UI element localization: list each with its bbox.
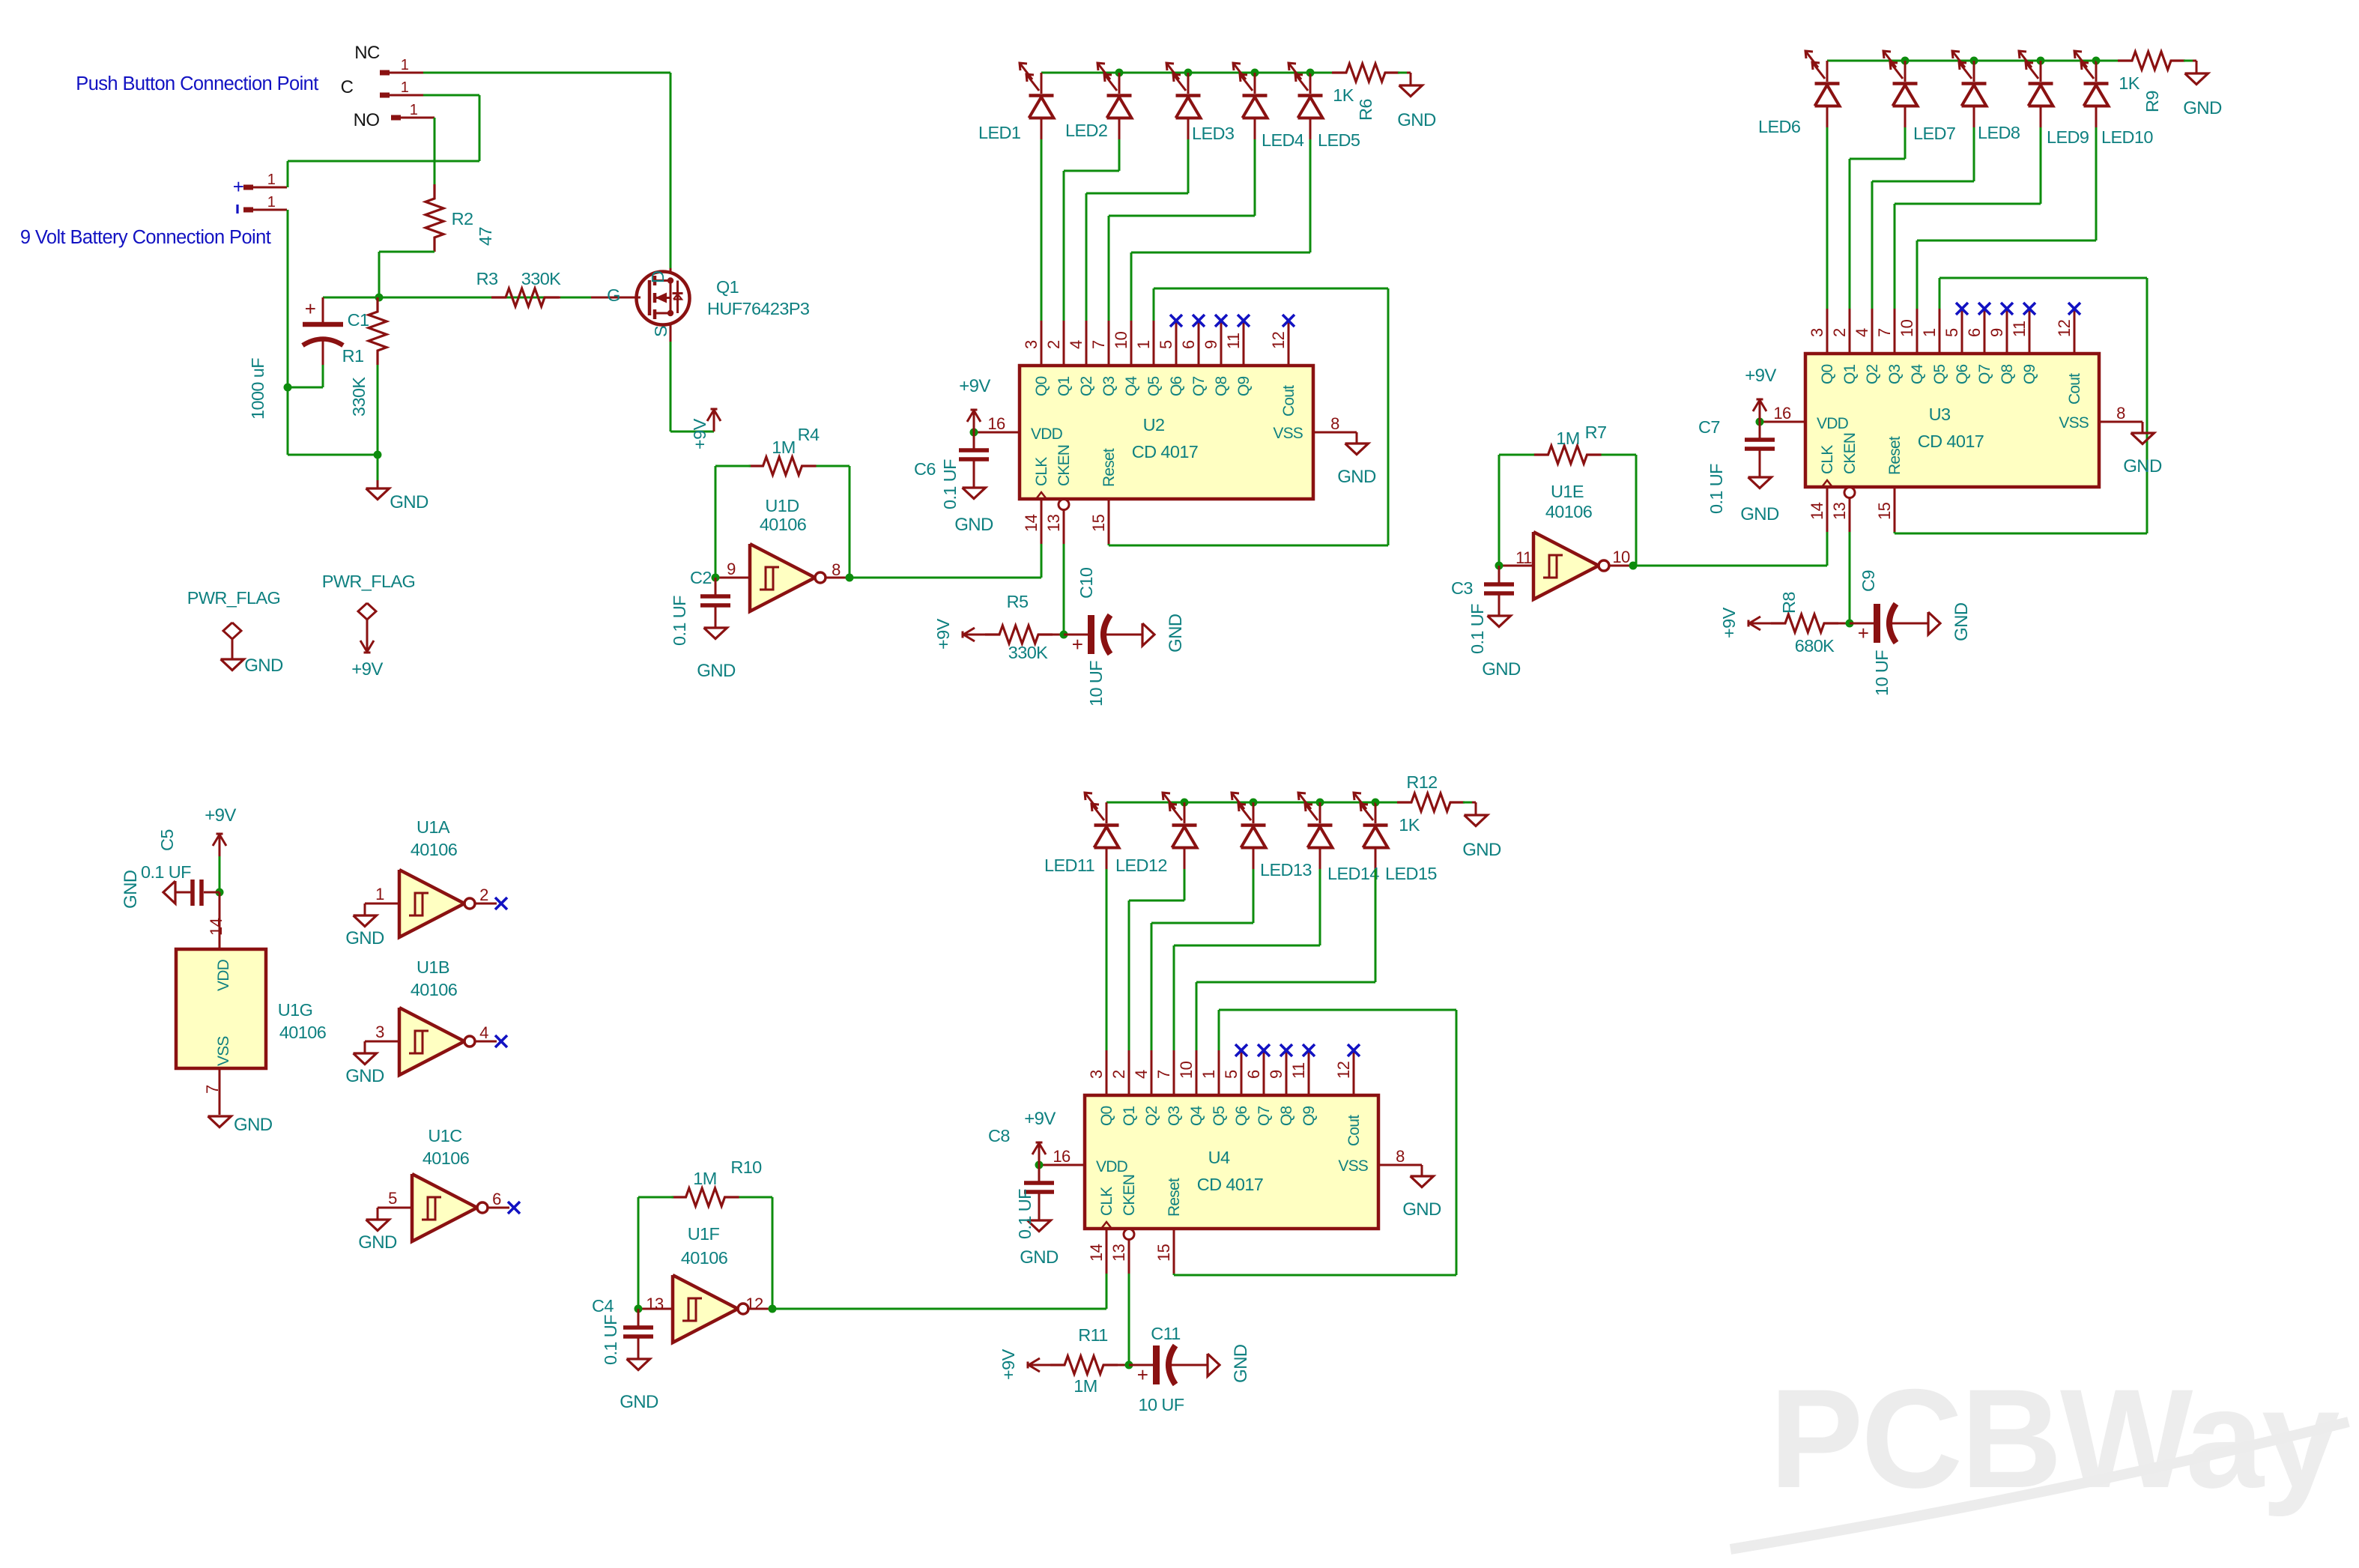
svg-text:330K: 330K: [521, 269, 561, 288]
svg-text:U1F: U1F: [688, 1224, 720, 1244]
svg-text:LED7: LED7: [1913, 124, 1955, 143]
svg-text:4: 4: [1132, 1070, 1151, 1079]
svg-text:GND: GND: [1337, 467, 1376, 487]
inverter U1F: [638, 1308, 673, 1310]
svg-text:R10: R10: [730, 1157, 762, 1177]
pin 1 U4: [1218, 1050, 1220, 1095]
wire LED rail U4: [1106, 802, 1375, 804]
pin 6 U4: [1263, 1050, 1265, 1095]
svg-text:0.1 UF: 0.1 UF: [940, 459, 960, 509]
svg-text:C5: C5: [157, 829, 177, 851]
svg-text:40106: 40106: [1545, 502, 1593, 521]
pin 7 U4: [1173, 1050, 1175, 1095]
pin 5 U2: [1175, 321, 1178, 366]
VDD pin 16 U2: [974, 432, 1020, 434]
svg-text:15: 15: [1089, 514, 1108, 532]
svg-text:1M: 1M: [1073, 1376, 1097, 1396]
svg-text:PWR_FLAG: PWR_FLAG: [187, 588, 280, 608]
svg-text:GND: GND: [620, 1392, 658, 1412]
svg-text:14: 14: [207, 918, 225, 936]
svg-text:40106: 40106: [681, 1248, 728, 1268]
svg-text:40106: 40106: [411, 980, 458, 999]
svg-text:LED15: LED15: [1385, 864, 1437, 883]
pin 12 U3: [2074, 309, 2076, 354]
svg-text:+: +: [1137, 1363, 1148, 1386]
svg-text:1K: 1K: [1333, 85, 1354, 105]
resistor R3: [491, 288, 559, 306]
junction C5/VDD: [216, 889, 224, 897]
capacitor C3: [1498, 566, 1501, 583]
pin 4 U4: [1151, 1050, 1153, 1095]
LED LED8: [1973, 61, 1975, 82]
svg-text:13: 13: [1044, 514, 1063, 532]
svg-text:GND: GND: [954, 515, 993, 535]
svg-text:3: 3: [1808, 328, 1826, 337]
svg-text:10: 10: [1612, 548, 1630, 566]
svg-text:+: +: [1858, 622, 1869, 644]
capacitor C10 10UF: [1064, 634, 1088, 636]
svg-text:1K: 1K: [1399, 815, 1420, 835]
pin 5 U4: [1241, 1050, 1243, 1095]
svg-text:0.1 UF: 0.1 UF: [1468, 604, 1487, 654]
svg-text:CLK: CLK: [1819, 445, 1836, 474]
wire +9V to VDD: [219, 856, 221, 892]
svg-text:+9V: +9V: [1024, 1109, 1056, 1129]
svg-text:GND: GND: [2123, 456, 2162, 476]
svg-text:Q7: Q7: [1976, 364, 1993, 384]
pin 5 U3: [1961, 309, 1963, 354]
svg-text:13: 13: [1109, 1244, 1128, 1262]
wire CLK U4: [1106, 1274, 1108, 1309]
svg-text:C6: C6: [914, 459, 936, 479]
pin 10 U2: [1130, 321, 1133, 366]
pin 12 U2: [1288, 321, 1290, 366]
svg-text:330K: 330K: [1008, 643, 1048, 662]
svg-text:Q9: Q9: [2021, 364, 2038, 384]
LED LED14: [1319, 802, 1321, 823]
svg-text:12: 12: [2055, 319, 2074, 337]
svg-text:2: 2: [1830, 328, 1849, 337]
svg-text:U3: U3: [1929, 405, 1951, 424]
svg-text:C8: C8: [988, 1126, 1010, 1145]
capacitor C1: [322, 297, 324, 322]
svg-text:R12: R12: [1406, 772, 1437, 792]
svg-text:+9V: +9V: [351, 659, 383, 679]
svg-text:NO: NO: [354, 110, 380, 130]
svg-text:8: 8: [1330, 414, 1339, 433]
svg-text:1M: 1M: [1556, 429, 1579, 448]
LED LED5: [1309, 73, 1312, 94]
pin 3 U3: [1826, 309, 1829, 354]
svg-text:4: 4: [1853, 328, 1871, 337]
+9V power R5: [963, 634, 975, 636]
svg-text:Q8: Q8: [1999, 364, 2016, 384]
svg-text:R1: R1: [342, 346, 364, 366]
wire LED9: [2040, 127, 2042, 204]
svg-text:1: 1: [401, 79, 409, 96]
svg-text:7: 7: [1875, 328, 1894, 337]
svg-text:LED9: LED9: [2047, 127, 2089, 147]
svg-text:CKEN: CKEN: [1841, 433, 1859, 474]
svg-text:Q7: Q7: [1256, 1106, 1273, 1126]
svg-text:GND: GND: [1231, 1344, 1251, 1383]
ground C4: [627, 1359, 650, 1370]
svg-text:GND: GND: [1740, 504, 1779, 524]
wire main RC node: [323, 297, 591, 299]
svg-text:GND: GND: [1397, 110, 1436, 130]
wire NC to Q1 drain: [423, 72, 670, 74]
svg-text:GND: GND: [121, 870, 141, 909]
wire Q5 feedback loop U3: [1939, 278, 1941, 309]
resistor R2: [426, 184, 443, 252]
wire C pin: [423, 94, 479, 97]
svg-text:+: +: [1072, 633, 1083, 656]
pin 9 U2: [1220, 321, 1223, 366]
LED LED4: [1254, 73, 1256, 94]
svg-text:Q4: Q4: [1909, 363, 1926, 384]
wire to R12: [1375, 802, 1399, 804]
IC U2 CD4017 body: [1020, 366, 1313, 499]
svg-text:Reset: Reset: [1100, 448, 1118, 487]
resistor R1: [369, 297, 387, 365]
svg-text:CD 4017: CD 4017: [1132, 442, 1199, 461]
svg-text:15: 15: [1875, 502, 1894, 520]
inverter U1C (unused): [378, 1207, 412, 1209]
+9V power U1G: [219, 834, 221, 856]
wire C1 bottom: [322, 365, 324, 387]
wire LED rail U3: [1827, 60, 2096, 62]
svg-text:C7: C7: [1698, 417, 1720, 437]
svg-text:GND: GND: [345, 1066, 384, 1086]
svg-text:14: 14: [1022, 514, 1041, 532]
ground C11: [1208, 1354, 1220, 1376]
svg-text:9: 9: [1267, 1070, 1286, 1079]
svg-text:Q3: Q3: [1166, 1106, 1183, 1126]
svg-text:LED3: LED3: [1192, 124, 1235, 143]
pin 11 U2: [1243, 321, 1245, 366]
wire battery - down: [287, 210, 289, 455]
pin 14 U1G: [219, 892, 221, 949]
svg-text:U4: U4: [1208, 1148, 1230, 1167]
no-connect pin 5 U3: [1956, 303, 1968, 315]
+9V power R11: [1028, 1364, 1040, 1366]
svg-text:VDD: VDD: [1817, 415, 1849, 432]
svg-text:Q1: Q1: [1056, 376, 1073, 396]
svg-text:3: 3: [375, 1023, 384, 1041]
+9V power under PWR_FLAG: [366, 630, 369, 653]
ground U1G VSS: [208, 1116, 231, 1127]
IC U4 CD4017 body: [1085, 1095, 1378, 1229]
svg-text:LED14: LED14: [1327, 864, 1379, 883]
pin 1 U3: [1939, 309, 1941, 354]
svg-text:C11: C11: [1151, 1324, 1181, 1343]
svg-text:Q2: Q2: [1078, 376, 1095, 396]
wire LED6 to pin3: [1826, 127, 1829, 309]
resistor U1F feedback: [672, 1188, 739, 1206]
capacitor C7 0.1UF: [1759, 422, 1761, 438]
pin 4 U3: [1871, 309, 1874, 354]
svg-text:Q0: Q0: [1098, 1106, 1115, 1126]
pin 3 U2: [1041, 321, 1043, 366]
junction main node: [375, 294, 384, 302]
svg-text:+9V: +9V: [999, 1348, 1018, 1380]
svg-text:LED5: LED5: [1318, 130, 1360, 150]
svg-text:1: 1: [1199, 1070, 1218, 1079]
svg-text:11: 11: [1224, 333, 1243, 349]
svg-text:7: 7: [1154, 1070, 1173, 1079]
no-connect pin 11 U4: [1303, 1044, 1315, 1056]
svg-text:LED13: LED13: [1260, 860, 1312, 880]
LED LED6: [1826, 61, 1829, 82]
svg-text:2: 2: [1044, 340, 1063, 349]
inverter U1A (unused): [365, 903, 399, 905]
wire LED5: [1309, 139, 1312, 252]
svg-text:GND: GND: [1166, 614, 1186, 653]
wire U1E feedback left: [1498, 455, 1501, 566]
wire U1F feedback left: [638, 1197, 640, 1309]
svg-text:CKEN: CKEN: [1056, 445, 1073, 486]
svg-text:R8: R8: [1779, 592, 1799, 614]
svg-text:LED4: LED4: [1262, 130, 1304, 150]
no-connect pin 5 U2: [1170, 315, 1182, 327]
ground decoupling U4: [1028, 1220, 1051, 1232]
svg-text:10 UF: 10 UF: [1139, 1395, 1184, 1414]
+9V power U4: [1038, 1142, 1041, 1165]
svg-text:1: 1: [267, 172, 276, 188]
pin 4 U2: [1085, 321, 1088, 366]
svg-text:GND: GND: [1462, 840, 1501, 860]
resistor U1E feedback: [1534, 446, 1602, 464]
svg-text:Q4: Q4: [1123, 375, 1140, 396]
no-connect pin 12 U4: [1348, 1044, 1360, 1056]
wire U1D out to U2 CLK: [850, 577, 1041, 579]
no-connect pin 12 U2: [1283, 315, 1294, 327]
svg-text:8: 8: [832, 560, 841, 579]
svg-text:Q2: Q2: [1864, 364, 1881, 384]
pin 7 U3: [1894, 309, 1896, 354]
wire to battery +: [287, 161, 289, 187]
pin 7 U2: [1108, 321, 1110, 366]
svg-text:6: 6: [492, 1190, 501, 1208]
svg-text:680K: 680K: [1795, 636, 1835, 656]
svg-text:Q0: Q0: [1033, 376, 1050, 396]
ground GND main: [366, 488, 390, 500]
svg-text:Q7: Q7: [1190, 376, 1208, 396]
inverter U1B (unused): [365, 1041, 399, 1043]
svg-text:1M: 1M: [772, 438, 795, 457]
no-connect U1B output: [495, 1035, 507, 1047]
svg-text:11: 11: [1515, 548, 1532, 567]
wire bottom node: [288, 454, 378, 456]
svg-text:HUF76423P3: HUF76423P3: [707, 299, 810, 318]
svg-text:0.1 UF: 0.1 UF: [141, 862, 191, 882]
svg-text:VDD: VDD: [1096, 1158, 1128, 1175]
svg-text:14: 14: [1087, 1244, 1106, 1262]
LED LED10: [2095, 61, 2098, 82]
wire CLK U3: [1826, 532, 1829, 566]
svg-text:+: +: [233, 175, 244, 198]
Reset pin 15 U2: [1108, 499, 1110, 544]
svg-text:CD 4017: CD 4017: [1918, 432, 1984, 451]
ground decoupling U2: [963, 488, 986, 499]
svg-text:40106: 40106: [760, 515, 807, 534]
no-connect pin 6 U4: [1258, 1044, 1270, 1056]
wire R1 bottom: [377, 365, 379, 455]
wire NO to R2: [434, 118, 436, 185]
svg-text:LED6: LED6: [1758, 117, 1801, 136]
svg-text:GND: GND: [1951, 602, 1972, 641]
svg-text:R5: R5: [1007, 592, 1029, 611]
resistor R12 1K: [1397, 793, 1465, 811]
wire LED4: [1254, 139, 1256, 216]
IC U3 CD4017 body: [1805, 354, 2099, 487]
connector J1 pin -: [243, 208, 253, 213]
svg-text:1: 1: [1920, 328, 1939, 337]
svg-text:0.1 UF: 0.1 UF: [670, 596, 689, 646]
svg-text:13: 13: [1830, 502, 1849, 520]
connector J1 pin +: [243, 185, 253, 190]
ground C2: [704, 628, 727, 639]
no-connect pin 9 U2: [1215, 315, 1227, 327]
pin 10 U3: [1916, 309, 1919, 354]
pin 2 U2: [1063, 321, 1065, 366]
svg-text:GND: GND: [697, 661, 736, 681]
svg-text:Q6: Q6: [1954, 364, 1971, 384]
svg-text:C: C: [341, 77, 354, 97]
svg-text:3: 3: [1022, 340, 1041, 349]
svg-text:LED11: LED11: [1044, 856, 1094, 875]
svg-text:C1: C1: [348, 310, 369, 330]
svg-text:10: 10: [1112, 331, 1130, 349]
VSS pin 8 U3: [2099, 421, 2143, 423]
svg-text:GND: GND: [2183, 98, 2222, 118]
svg-text:S: S: [651, 326, 670, 337]
pin 9 U3: [2006, 309, 2008, 354]
svg-text:1: 1: [267, 194, 276, 211]
wire U1F out to U4 CLK: [772, 1308, 1106, 1310]
svg-text:Q6: Q6: [1168, 376, 1185, 396]
no-connect pin 12 U3: [2068, 303, 2080, 315]
svg-text:LED10: LED10: [2101, 127, 2153, 147]
svg-text:0.1 UF: 0.1 UF: [601, 1315, 620, 1365]
pin 2 U3: [1849, 309, 1851, 354]
+9V power U3: [1759, 399, 1761, 422]
svg-text:CD 4017: CD 4017: [1197, 1175, 1264, 1194]
svg-text:0.1 UF: 0.1 UF: [1015, 1189, 1035, 1239]
svg-text:5: 5: [1157, 340, 1175, 349]
no-connect pin 9 U3: [2001, 303, 2013, 315]
capacitor C8 0.1UF: [1038, 1165, 1041, 1181]
pin 10 U4: [1196, 1050, 1198, 1095]
capacitor C9 10UF: [1850, 623, 1874, 625]
resistor R6 1K: [1332, 64, 1399, 82]
wire down to Q1 drain: [670, 73, 672, 268]
svg-text:C3: C3: [1451, 578, 1473, 598]
pin 2 U4: [1128, 1050, 1130, 1095]
svg-text:GND: GND: [1020, 1247, 1059, 1268]
svg-text:6: 6: [1965, 328, 1984, 337]
VDD pin 16 U4: [1039, 1164, 1085, 1166]
svg-text:VSS: VSS: [1273, 425, 1303, 442]
ground C5: [163, 881, 175, 903]
ground VSS U4: [1411, 1176, 1434, 1187]
wire LED13: [1253, 869, 1255, 923]
svg-text:1: 1: [410, 102, 418, 118]
svg-text:VDD: VDD: [215, 959, 232, 991]
svg-text:Q1: Q1: [1841, 364, 1859, 384]
no-connect U1C output: [508, 1202, 520, 1214]
svg-text:R3: R3: [476, 269, 498, 288]
svg-text:5: 5: [1222, 1070, 1241, 1079]
svg-text:R2: R2: [452, 209, 473, 228]
svg-text:R9: R9: [2143, 91, 2162, 112]
svg-text:1M: 1M: [693, 1169, 716, 1188]
svg-text:Cout: Cout: [2066, 373, 2083, 405]
wire Q5 feedback loop U2: [1153, 288, 1155, 321]
svg-text:8: 8: [2116, 404, 2125, 423]
ground C3: [1488, 616, 1511, 627]
ground U1A input: [354, 915, 377, 927]
svg-text:LED12: LED12: [1115, 856, 1167, 875]
pin 1 U2: [1153, 321, 1155, 366]
svg-text:+9V: +9V: [959, 376, 990, 396]
VSS pin 8 U2: [1313, 432, 1357, 434]
capacitor C6 0.1UF: [973, 432, 975, 449]
svg-text:16: 16: [1773, 404, 1791, 423]
ground U1B input: [354, 1053, 377, 1065]
LED LED15: [1375, 802, 1377, 823]
svg-text:+9V: +9V: [1745, 366, 1776, 386]
svg-text:7: 7: [1089, 340, 1108, 349]
wire CKEN U3: [1849, 532, 1851, 623]
svg-text:Q3: Q3: [1886, 364, 1904, 384]
wire LED11 to pin3: [1106, 869, 1108, 1050]
pin 7 U1G: [219, 1068, 221, 1115]
svg-text:6: 6: [1179, 340, 1198, 349]
resistor U1D feedback: [749, 457, 817, 475]
wire LED8: [1973, 127, 1975, 181]
CKEN pin 13 U4: [1124, 1229, 1134, 1240]
wire to R9: [2096, 60, 2120, 62]
+9V power Q1 source: [713, 409, 715, 432]
svg-text:16: 16: [987, 414, 1005, 433]
no-connect pin 9 U4: [1280, 1044, 1292, 1056]
svg-text:CLK: CLK: [1098, 1187, 1115, 1216]
svg-text:9: 9: [727, 560, 736, 578]
svg-text:VDD: VDD: [1031, 426, 1063, 443]
wire U1F feedback right: [772, 1197, 774, 1309]
wire R2 bottom: [379, 251, 434, 253]
wire U1D feedback left: [715, 466, 717, 578]
svg-text:CLK: CLK: [1033, 457, 1050, 486]
svg-text:5: 5: [388, 1189, 397, 1208]
wire LED1 to pin3: [1041, 139, 1043, 321]
svg-text:R4: R4: [798, 425, 820, 444]
svg-text:1: 1: [401, 57, 409, 73]
svg-text:VSS: VSS: [215, 1036, 232, 1066]
wire Q5 feedback loop U4: [1218, 1010, 1220, 1050]
junction R8/C9: [1846, 620, 1854, 628]
svg-text:1000 uF: 1000 uF: [248, 358, 267, 420]
pin 9 U4: [1286, 1050, 1288, 1095]
svg-text:GND: GND: [234, 1115, 273, 1135]
wire Q1 source: [670, 342, 672, 432]
svg-text:9 Volt Battery Connection Poin: 9 Volt Battery Connection Point: [20, 227, 271, 248]
svg-text:+: +: [305, 297, 316, 320]
svg-text:Q8: Q8: [1213, 376, 1230, 396]
svg-text:6: 6: [1244, 1070, 1263, 1079]
CLK pin 14 U2: [1036, 492, 1047, 499]
